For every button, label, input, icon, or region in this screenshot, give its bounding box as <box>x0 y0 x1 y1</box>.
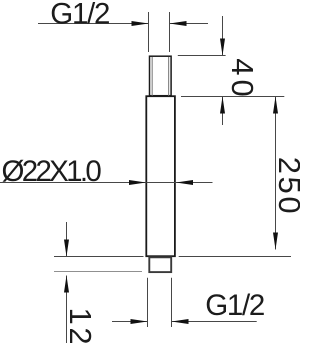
svg-text:12: 12 <box>63 308 98 343</box>
svg-text:G1/2: G1/2 <box>50 0 109 30</box>
svg-text:Ø22X1.0: Ø22X1.0 <box>2 155 102 188</box>
svg-text:40: 40 <box>225 58 260 100</box>
svg-text:250: 250 <box>272 157 300 217</box>
svg-text:G1/2: G1/2 <box>205 289 264 322</box>
